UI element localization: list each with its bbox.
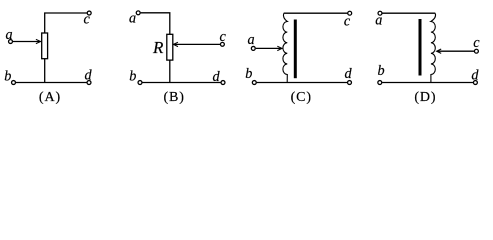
svg-text:a: a xyxy=(247,32,254,48)
svg-text:d: d xyxy=(345,66,353,82)
autotransformer winding xyxy=(431,13,436,82)
wiper arrow wire from a xyxy=(13,41,40,43)
top wire winding to c xyxy=(284,12,348,14)
terminal c circle xyxy=(474,49,478,53)
terminal d circle xyxy=(348,81,352,85)
wire resistor bottom to bottom rail xyxy=(169,60,171,82)
terminal b circle xyxy=(12,81,16,85)
terminal a circle xyxy=(251,46,255,50)
bottom wire b to d xyxy=(382,82,473,84)
terminal d circle xyxy=(221,81,225,85)
svg-text:b: b xyxy=(129,69,136,85)
resistor body xyxy=(167,34,173,60)
wire a to resistor top xyxy=(141,13,170,35)
terminal c circle xyxy=(220,42,224,46)
wire resistor bottom to bottom rail xyxy=(44,59,46,83)
bottom wire b to d xyxy=(16,82,87,84)
wiper arrow wire to c xyxy=(437,50,474,52)
svg-text:b: b xyxy=(245,66,252,82)
svg-text:b: b xyxy=(4,69,11,85)
svg-text:(C): (C) xyxy=(291,90,312,105)
svg-text:b: b xyxy=(377,63,384,79)
terminal a circle xyxy=(136,11,140,15)
svg-text:c: c xyxy=(83,12,90,28)
terminal b circle xyxy=(138,81,142,85)
wiper arrowhead xyxy=(173,42,178,46)
terminal a circle xyxy=(378,11,382,15)
svg-text:d: d xyxy=(212,69,220,85)
wiper arrowhead xyxy=(36,39,41,43)
bottom wire b to d xyxy=(257,82,348,84)
autotransformer winding xyxy=(283,13,287,82)
terminal d circle xyxy=(87,81,91,85)
svg-text:(B): (B) xyxy=(164,90,185,105)
svg-text:a: a xyxy=(129,11,136,27)
wiper arrow wire from a xyxy=(256,47,281,49)
iron core bar xyxy=(419,19,422,76)
terminal c circle xyxy=(87,11,91,15)
terminal a circle xyxy=(9,40,13,44)
svg-text:c: c xyxy=(344,14,351,30)
wiper arrowhead xyxy=(277,46,282,50)
svg-text:a: a xyxy=(375,13,382,29)
terminal c circle xyxy=(348,11,352,15)
wiper arrowhead xyxy=(437,49,442,53)
svg-text:R: R xyxy=(152,38,164,57)
terminal d circle xyxy=(473,81,477,85)
top wire a to winding xyxy=(382,12,435,14)
iron core bar xyxy=(294,20,297,79)
wire resistor top to node c xyxy=(45,13,87,33)
svg-text:(A): (A) xyxy=(39,90,61,105)
svg-text:(D): (D) xyxy=(414,90,436,105)
wiper arrow wire to c xyxy=(174,43,220,45)
terminal b circle xyxy=(378,81,382,85)
resistor body xyxy=(42,33,48,59)
bottom wire b to d xyxy=(142,82,221,84)
terminal b circle xyxy=(252,81,256,85)
